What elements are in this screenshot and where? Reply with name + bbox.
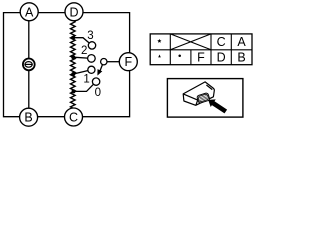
svg-text:1: 1 <box>83 74 89 86</box>
svg-text:A: A <box>237 35 246 49</box>
svg-text:D: D <box>217 51 226 65</box>
svg-text:F: F <box>124 55 132 69</box>
svg-text:F: F <box>197 51 205 65</box>
svg-text:C: C <box>69 111 78 125</box>
svg-text:A: A <box>25 5 34 19</box>
svg-text:D: D <box>69 5 78 19</box>
svg-text:B: B <box>237 51 245 65</box>
svg-text:2: 2 <box>81 45 87 57</box>
svg-text:0: 0 <box>95 87 101 99</box>
svg-text:3: 3 <box>87 30 93 42</box>
svg-text:B: B <box>24 111 32 125</box>
svg-text:C: C <box>217 35 226 49</box>
